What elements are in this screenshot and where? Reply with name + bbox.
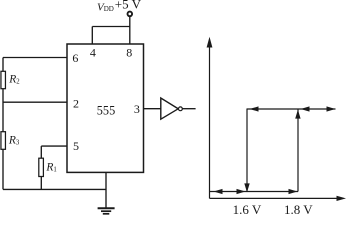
svg-text:1.8 V: 1.8 V (284, 202, 313, 216)
arrow left on bottom near axis (214, 189, 223, 194)
hysteresis loop left vertical (246, 109, 248, 192)
wire pin 6 (3, 57, 67, 59)
svg-text:8: 8 (126, 46, 132, 60)
svg-text:6: 6 (72, 51, 78, 65)
resistor R1 (39, 158, 44, 176)
wire pin 8 to supply terminal (129, 17, 131, 44)
svg-text:3: 3 (134, 102, 140, 116)
svg-text:1.6 V: 1.6 V (233, 202, 262, 216)
wire pin 4 (91, 27, 93, 45)
resistor R3 (1, 132, 6, 150)
hysteresis loop right vertical (297, 109, 299, 192)
wire pin 2 (3, 101, 67, 103)
resistor R2 (1, 71, 6, 88)
wire inverter output (182, 108, 195, 110)
arrow right at top line end (327, 106, 336, 111)
wire pin 3 output (144, 108, 161, 110)
svg-text:+5 V: +5 V (115, 0, 142, 12)
inverter bubble (179, 107, 183, 111)
wire R1 branch (40, 146, 42, 189)
arrow right at bottom-right corner (289, 189, 298, 194)
IC U1 555 body (67, 44, 144, 172)
svg-text:2: 2 (73, 97, 79, 111)
hysteresis loop bottom line (210, 191, 299, 193)
arrow down on left vertical (244, 183, 249, 192)
inverter buffer triangle (161, 98, 178, 119)
supply terminal circle (128, 12, 133, 17)
graph y axis (209, 44, 211, 198)
hysteresis loop top line (247, 108, 336, 110)
svg-text:5: 5 (73, 139, 79, 153)
wire left rail (2, 58, 4, 190)
wire pin 5 (41, 145, 67, 147)
arrow left entering top junction (301, 106, 310, 111)
arrow left at top-left corner (250, 106, 259, 111)
svg-text:4: 4 (90, 46, 96, 60)
svg-text:555: 555 (97, 103, 115, 117)
wire pin4-pin8 top link (92, 26, 130, 28)
arrow right on bottom before left vertical (237, 189, 246, 194)
ground stem (105, 172, 107, 208)
wire bottom (3, 188, 106, 190)
graph x axis (210, 197, 341, 199)
ground symbol (98, 207, 115, 209)
arrow up on right vertical (295, 110, 300, 119)
